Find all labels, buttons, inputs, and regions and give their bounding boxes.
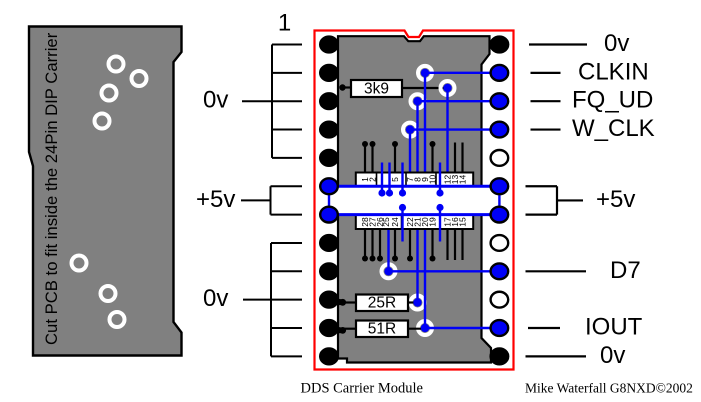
wire via G to IOUT pad (425, 327, 499, 329)
pin 10 end dot (430, 141, 436, 147)
pad left row8 (0v) (320, 235, 338, 251)
pin 10 lead (431, 144, 433, 173)
DDS module outline (red) (315, 31, 514, 370)
+5v power strip (white) (328, 186, 499, 214)
svg-text:Cut PCB to fit inside the 24Pi: Cut PCB to fit inside the 24Pin DIP Carr… (42, 32, 61, 345)
wire via A down to pin 9 (424, 73, 426, 173)
hole H7 on PCB blank (110, 312, 125, 327)
pin 26 end dot (377, 256, 383, 262)
wire via C to FQ_UD pad (418, 100, 500, 102)
svg-text:0v: 0v (600, 342, 625, 369)
junction dot pin4 on +5v strip (386, 189, 393, 196)
svg-text:1: 1 (278, 10, 291, 37)
wire pin11 to +5v strip (439, 163, 441, 194)
svg-text:14: 14 (458, 175, 468, 185)
hole H5 on PCB blank (72, 256, 87, 271)
hole H6 on PCB blank (101, 286, 116, 301)
hole H3 on PCB blank (102, 86, 117, 101)
svg-text:15: 15 (458, 217, 468, 227)
pin 16 lead (454, 229, 456, 260)
header divider after pin2 (376, 173, 378, 187)
wire IOUT (528, 327, 560, 329)
header divider after pin19 (439, 215, 441, 229)
wire pin21 down to via F (416, 215, 418, 303)
pin 13 lead (454, 143, 456, 173)
svg-text:19: 19 (428, 217, 438, 227)
+5v bus wire top (328, 185, 499, 188)
top pin header box (pins 1-14) (356, 173, 473, 187)
wire via E to D7 pad (389, 270, 500, 272)
pad left row10 (0v) (320, 292, 338, 308)
pin 28 lead (364, 229, 366, 258)
svg-text:IOUT: IOUT (585, 314, 643, 341)
wire FQ_UD (531, 100, 561, 102)
svg-text:3k9: 3k9 (364, 81, 389, 98)
via G ring (pin20/IOUT) (418, 321, 432, 335)
wire pad row11 to R3 junction (330, 329, 341, 331)
wire pin3 to +5v strip (381, 163, 383, 194)
resistor R3 51R (356, 321, 408, 338)
via D pad dot (406, 125, 414, 133)
bottom pin header box (pins 15-28) (356, 215, 473, 229)
pad right row9 (D7) (491, 263, 509, 279)
+5v left pads link wire (328, 186, 330, 214)
header divider after pin10 (435, 173, 437, 187)
pad left row12 (0v) (320, 348, 338, 364)
pin 2 lead (371, 144, 373, 173)
junction dot pin23 on +5v strip (399, 204, 406, 211)
wire via B down to pin 12 (446, 88, 448, 173)
pin 27 lead (371, 229, 373, 258)
wire pin18 from +5v strip (439, 208, 441, 242)
0v bus bracket (pins 1-5) wire (242, 45, 302, 158)
pad left row2 (0v) (320, 65, 338, 81)
svg-text:2: 2 (368, 177, 378, 182)
pin 27 end dot (370, 256, 376, 262)
pad right row5 (nc) (491, 150, 509, 166)
+5v right pads link wire (498, 186, 500, 214)
wire pin4 to +5v strip (388, 163, 390, 194)
svg-text:5: 5 (390, 177, 400, 182)
junction dot near R1 (339, 84, 345, 90)
junction dot pin18 on +5v strip (436, 204, 443, 211)
via D (pin7/W_CLK) ring (403, 123, 417, 137)
pin 24 end dot (392, 256, 398, 262)
pad right row6 (+5v) (491, 178, 509, 194)
junction dot pin3 on +5v strip (378, 189, 385, 196)
wire pin23 from +5v strip (401, 208, 403, 242)
wire R1 to via B (402, 87, 448, 89)
hole H2 on PCB blank (132, 71, 147, 86)
via F ring (pin21/R2) (411, 296, 425, 310)
pin 1 end dot (362, 141, 368, 147)
wire D7 (526, 270, 587, 272)
pad right row8 (nc) (491, 235, 509, 251)
+5v bracket right wire (526, 186, 584, 214)
pin 15 lead (461, 229, 463, 260)
via F pad dot (413, 298, 421, 306)
junction dot R2 left (339, 299, 346, 306)
0v bus bracket (pins 8-12) wire (243, 243, 302, 356)
wire via D down to pin 7 (409, 130, 411, 173)
pad left row6 (+5v) (320, 178, 338, 194)
wire R3 to via G (408, 328, 425, 330)
pad right row4 (W_CLK) (491, 122, 509, 138)
svg-text:+5v: +5v (196, 186, 235, 213)
hole H4 on PCB blank (95, 114, 110, 129)
pin 5 end dot (392, 141, 398, 147)
pin 19 end dot (430, 256, 436, 262)
resistor R1 3k9 (351, 80, 402, 97)
wire via A to CLKIN pad (425, 72, 499, 74)
junction dot pin11 on +5v strip (436, 189, 443, 196)
+5v bracket (pins 6-7) wire (241, 186, 302, 214)
wire R1 left (343, 86, 352, 88)
junction dot pin6 on +5v strip (399, 189, 406, 196)
pin 24 lead (394, 229, 396, 258)
pin 17 lead (446, 229, 448, 260)
svg-text:10: 10 (428, 175, 438, 185)
svg-text:24: 24 (390, 217, 400, 227)
pad left row9 (0v) (320, 263, 338, 279)
wire via D to W_CLK pad (410, 128, 499, 130)
pin 5 lead (394, 144, 396, 173)
header divider after pin6 (405, 173, 407, 187)
svg-text:0v: 0v (604, 30, 629, 57)
wire R2 to via F (408, 301, 418, 303)
svg-text:DDS Carrier Module: DDS Carrier Module (301, 381, 423, 397)
via A pad dot (421, 69, 429, 77)
svg-text:+5v: +5v (596, 186, 635, 213)
svg-text:0v: 0v (203, 285, 228, 312)
wire 0v (pin 1 row12) (526, 355, 587, 357)
pin 26 lead (379, 229, 381, 258)
pad left row4 (0v) (320, 122, 338, 138)
via B pad dot (443, 84, 451, 92)
via E pad dot (384, 267, 392, 275)
pad right row7 (+5v) (491, 207, 509, 223)
via E ring (pin25/D7) (382, 264, 396, 278)
via C pad dot (413, 97, 421, 105)
wire R3 left (343, 328, 356, 330)
via C (pin8/FQ_UD) ring (411, 94, 425, 108)
PCB blank (24-pin DIP carrier cut-out) (29, 27, 182, 356)
pin 28 end dot (362, 256, 368, 262)
svg-text:Mike Waterfall G8NXD©2002: Mike Waterfall G8NXD©2002 (525, 381, 693, 396)
header divider after pin24 (401, 215, 403, 229)
svg-text:CLKIN: CLKIN (578, 58, 649, 85)
wire pin6 to +5v strip (401, 163, 403, 194)
pad left row11 (0v) (320, 320, 338, 336)
svg-text:W_CLK: W_CLK (572, 115, 655, 142)
wire pad row10 to R2 junction (330, 300, 341, 302)
wire pin20 down to via G (424, 215, 426, 328)
pin 1 lead (364, 144, 366, 173)
via A (pin9/CLKIN) ring (418, 66, 432, 80)
wire 0v (pin 24 row1) (529, 43, 587, 45)
pad right row3 (FQ_UD) (491, 93, 509, 109)
svg-text:25R: 25R (368, 295, 396, 312)
DIP carrier body U1 (grey) (338, 36, 491, 362)
pad right row12 (0v) (491, 348, 509, 364)
pad left row5 (0v) (320, 150, 338, 166)
via G pad dot (421, 324, 429, 332)
svg-text:51R: 51R (368, 321, 396, 338)
pin 14 lead (461, 143, 463, 173)
wire R2 left (343, 301, 356, 303)
resistor R2 25R (356, 295, 408, 312)
pad right row2 (CLKIN) (491, 65, 509, 81)
svg-text:FQ_UD: FQ_UD (572, 87, 653, 114)
pad right row10 (nc) (491, 292, 509, 308)
pad left row7 (+5v) (320, 207, 338, 223)
pin 19 lead (431, 229, 433, 258)
via B (pin12) ring (441, 81, 455, 95)
pin 22 end dot (407, 256, 413, 262)
svg-text:0v: 0v (203, 87, 228, 114)
wire via C down to pin 8 (416, 101, 418, 172)
junction dot R3 left (339, 327, 346, 334)
hole H1 on PCB blank (109, 57, 124, 72)
wire CLKIN (531, 72, 561, 74)
wire W_CLK (531, 128, 561, 130)
pin 2 end dot (370, 141, 376, 147)
+5v bus wire bottom (328, 213, 499, 216)
pad right row1 (0v) (491, 37, 509, 53)
svg-text:D7: D7 (610, 257, 641, 284)
pad left row3 (0v) (320, 93, 338, 109)
wire pin25 down to via E (387, 215, 389, 272)
pin 22 lead (409, 229, 411, 258)
pad left row1 (0v) (320, 37, 338, 53)
pad right row11 (IOUT) (491, 320, 509, 336)
